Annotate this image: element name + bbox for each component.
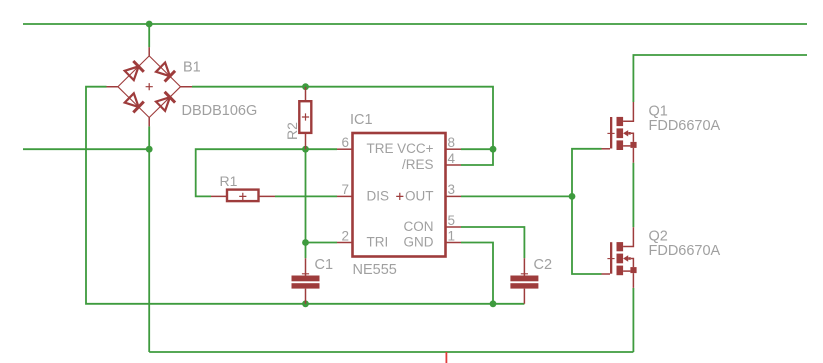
wire Q2 source to bottom rail [632,288,634,352]
svg-text:TRI: TRI [367,235,389,250]
bridge rectifier B1 [107,47,193,126]
svg-text:TRE: TRE [367,141,394,156]
wire B1 right to pin8 [192,87,493,150]
capacitor C1 [292,276,320,289]
svg-text:FDD6670A: FDD6670A [649,118,721,134]
wire pin1 GND down [461,243,493,304]
wire B1 top to top rail [148,24,150,47]
svg-text:C1: C1 [315,257,334,273]
wire red stub bottom [445,352,447,363]
wire OUT to Q2 gate [572,196,602,274]
IC1 pin stubs [337,149,461,242]
node junction top rail [146,21,153,28]
node junction left rail / B1 bottom [146,146,153,153]
node junction R2 bottom THR [302,146,309,153]
wire OUT to Q1 gate [572,149,602,197]
svg-text:R1: R1 [220,173,238,189]
wire pin2 TRI [306,242,338,244]
IC op-amp timer U IC1 NE555 [353,133,446,257]
svg-text:3: 3 [448,182,456,197]
svg-text:/RES: /RES [402,157,434,172]
node junction pin8/4 VCC [490,146,497,153]
svg-text:R2: R2 [284,122,300,140]
transistor Q2 [610,242,637,275]
svg-text:OUT: OUT [405,189,434,204]
wire B1 left to GND rail [86,87,524,304]
svg-text:NE555: NE555 [353,262,397,278]
svg-text:8: 8 [448,135,456,150]
resistor R1 [211,190,275,202]
wire pin5 CON to C2 [461,227,524,258]
wire R1 right to pin7 [275,195,337,197]
svg-text:7: 7 [341,182,349,197]
wire top rail VCC [23,23,807,25]
wire Q1 source to Q2 drain [632,163,634,228]
wire pin8 stub net [461,148,493,150]
wire left rail [23,148,149,150]
node junction pin2/C1 [302,239,309,246]
wire B1 bottom down to bottom rail [148,126,150,352]
node junction R2 top [302,83,309,90]
wire bottom rail [149,351,633,353]
node junction C1 bottom GND [302,300,309,307]
wire THR net pin6 [196,149,337,196]
svg-text:C2: C2 [534,257,553,273]
wire pin4 loop [461,149,493,165]
svg-text:B1: B1 [183,60,201,76]
wire rail to Q1 drain [633,55,807,102]
svg-text:6: 6 [341,135,349,150]
resistor R2 [299,87,311,149]
svg-text:5: 5 [448,213,456,228]
wire OUT net [461,195,572,197]
svg-text:1: 1 [448,228,456,243]
svg-text:FDD6670A: FDD6670A [649,243,721,259]
svg-text:GND: GND [404,235,434,250]
svg-text:DIS: DIS [367,189,390,204]
IC1 origin cross [396,193,403,200]
svg-text:VCC+: VCC+ [397,141,434,156]
capacitor C2 [510,276,538,289]
node junction pin1 GND rail [490,300,497,307]
wire R2 bottom node vertical to C1 [305,149,307,258]
svg-text:2: 2 [341,228,349,243]
transistor Q1 [610,117,637,150]
svg-text:DBDB106G: DBDB106G [182,103,258,119]
svg-text:IC1: IC1 [350,112,373,128]
svg-text:4: 4 [448,151,456,166]
svg-text:CON: CON [404,219,434,234]
node junction OUT [569,193,576,200]
